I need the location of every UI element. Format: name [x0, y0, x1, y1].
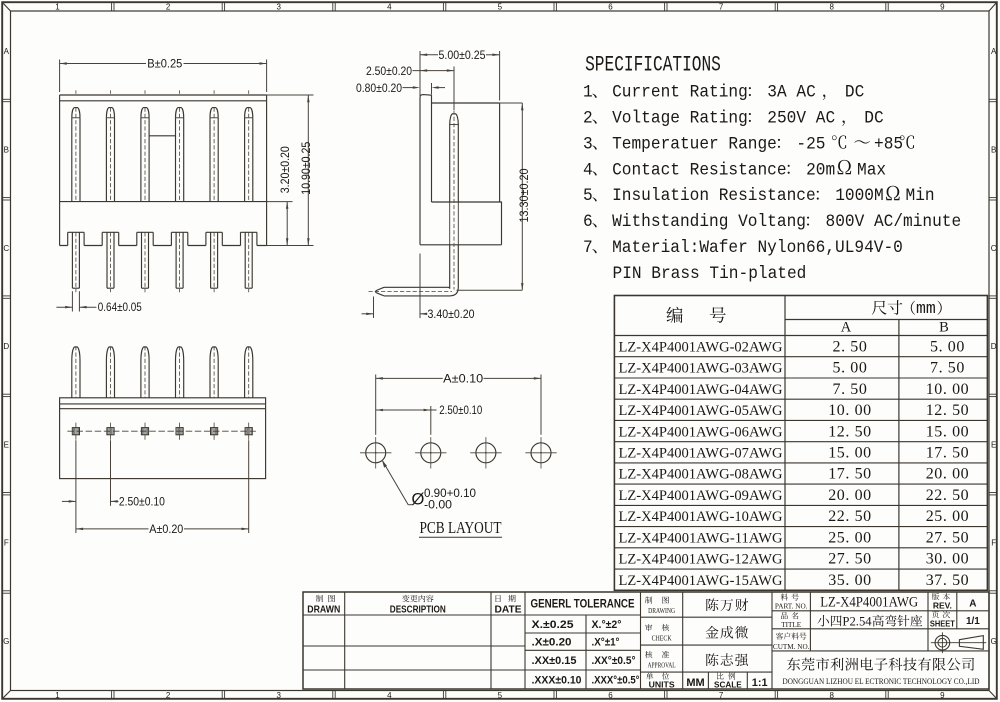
pin 5 centerline mark above body	[213, 90, 215, 93]
svg-text:15. 00: 15. 00	[828, 445, 872, 462]
svg-text:6: 6	[583, 212, 593, 232]
ruler tick left 4	[2, 393, 10, 395]
label 日期/DATE	[496, 595, 501, 602]
svg-text:.XXX°±0.5°: .XXX°±0.5°	[592, 675, 640, 687]
svg-text:5.00±0.25: 5.00±0.25	[439, 48, 486, 62]
parts table row line 5	[614, 441, 987, 443]
pin 2 (top view)	[106, 347, 114, 398]
PCB LAYOUT caption underline	[419, 536, 502, 538]
front view shoulder line	[60, 201, 267, 203]
dimension 5.00±0.25 (side view top)	[419, 51, 421, 96]
pin dashed centerline vertical (side view)	[453, 111, 455, 290]
dashed center axis through pads (top view)	[67, 430, 257, 432]
leg 4 dashed centerline	[179, 232, 181, 292]
dimension A±0.20 (top view)	[248, 440, 250, 533]
svg-text:A±0.10: A±0.10	[443, 372, 483, 386]
svg-text:10. 00: 10. 00	[926, 381, 970, 398]
svg-text:SHEET: SHEET	[930, 619, 956, 629]
dimension 2.50±0.10 (PCB layout)	[430, 406, 432, 435]
svg-text:LZ-X4P4001AWG-10AWG: LZ-X4P4001AWG-10AWG	[619, 509, 783, 525]
pin 6 dashed centerline (top view)	[248, 346, 250, 398]
svg-text:20m: 20m	[806, 161, 835, 181]
svg-text:DONGGUAN LIZHOU EL ECTRONIC TE: DONGGUAN LIZHOU EL ECTRONIC TECHNOLOGY C…	[783, 677, 980, 686]
svg-text:22. 50: 22. 50	[926, 487, 970, 504]
svg-text:C: C	[3, 244, 9, 253]
front view body side walls	[59, 95, 61, 246]
leg 3 bottom (front view)	[141, 232, 143, 288]
ruler tick right 5	[989, 492, 997, 494]
svg-text:9: 9	[940, 691, 945, 700]
front view notch side walls	[67, 232, 69, 245]
parts table row line 9	[614, 526, 987, 528]
solder pad 2 (top view)	[107, 428, 114, 435]
corner diagonal top-left	[2, 2, 10, 11]
svg-text:E: E	[991, 440, 996, 449]
svg-text:5. 00: 5. 00	[930, 338, 965, 355]
pin dashed centerline horizontal (side view)	[369, 291, 453, 293]
side view right wall lower	[501, 202, 503, 245]
svg-text:.XX±0.15: .XX±0.15	[532, 655, 577, 667]
svg-text:X.±0.25: X.±0.25	[532, 619, 574, 631]
hole 2 crosshair (PCB layout)	[415, 452, 446, 454]
svg-text:7. 50: 7. 50	[833, 381, 868, 398]
svg-text:3A AC: 3A AC	[767, 83, 815, 103]
ruler tick bottom 7	[774, 691, 776, 699]
svg-text:LZ-X4P4001AWG-03AWG: LZ-X4P4001AWG-03AWG	[619, 361, 783, 377]
svg-text:0.64±0.05: 0.64±0.05	[98, 300, 142, 314]
svg-text:7. 50: 7. 50	[930, 360, 965, 377]
svg-text:PIN Brass Tin-plated: PIN Brass Tin-plated	[613, 264, 807, 284]
svg-text:Temperatuer Range: Temperatuer Range	[612, 135, 777, 155]
pin 5 top (front view)	[210, 108, 218, 118]
row line under PART NO row	[772, 610, 989, 612]
svg-text:LZ-X4P4001AWG-02AWG: LZ-X4P4001AWG-02AWG	[619, 339, 783, 355]
label 品名/TITLE	[781, 612, 788, 619]
svg-text:X.°±2°: X.°±2°	[592, 619, 622, 631]
pin 2 centerline mark above body	[110, 90, 112, 93]
dimension 0.64±0.05 (front view bottom)	[71, 291, 73, 311]
svg-text:Current Rating: Current Rating	[612, 83, 748, 103]
svg-text:.X±0.20: .X±0.20	[532, 637, 572, 649]
hole 4 circle (PCB layout)	[531, 443, 551, 463]
svg-text:27. 50: 27. 50	[828, 551, 872, 568]
ruler tick top 4	[442, 2, 444, 11]
ruler tick bottom 4	[442, 691, 444, 699]
row line under CHECK row	[641, 644, 773, 646]
hole 1 crosshair (PCB layout)	[360, 452, 391, 454]
parts table row line 11	[614, 568, 987, 570]
svg-text:2: 2	[166, 691, 171, 700]
hole 3 crosshair (PCB layout)	[470, 452, 501, 454]
column line after PART NO labels	[809, 592, 811, 651]
top view body inner lines	[60, 403, 266, 405]
pin 6 centerline mark above body	[248, 90, 250, 93]
svg-text:4: 4	[583, 161, 593, 181]
svg-text:-0.00: -0.00	[424, 498, 452, 512]
svg-text:A: A	[991, 47, 997, 56]
svg-text:2.50±0.20: 2.50±0.20	[366, 64, 412, 78]
svg-text:5: 5	[498, 3, 503, 12]
svg-text:1: 1	[55, 3, 60, 12]
column line before REV value	[956, 592, 958, 629]
table header 编号 (part number)	[667, 307, 683, 323]
dimension A±0.10 (PCB layout)	[375, 375, 377, 435]
svg-text:UNITS: UNITS	[649, 681, 676, 690]
ruler tick top 2	[221, 2, 223, 11]
svg-text:Contact Resistance: Contact Resistance	[612, 161, 786, 181]
svg-text:7: 7	[583, 238, 593, 258]
svg-text:0.80±0.20: 0.80±0.20	[356, 81, 402, 95]
svg-text:DRAWING: DRAWING	[648, 607, 675, 615]
svg-text:20. 00: 20. 00	[926, 466, 970, 483]
leg 6 bottom (front view)	[244, 232, 246, 288]
pin 5 dashed centerline	[213, 108, 215, 202]
svg-text:7: 7	[719, 691, 724, 700]
svg-text:5: 5	[498, 691, 503, 700]
front view body top bar	[60, 94, 267, 96]
parts table column line part-number/size	[784, 296, 786, 591]
parts table row line 2	[614, 377, 987, 379]
hole 4 crosshair (PCB layout)	[525, 452, 556, 454]
svg-text:800V AC/minute: 800V AC/minute	[826, 212, 962, 232]
svg-text:1000M: 1000M	[835, 187, 883, 207]
pin 3 top (front view)	[141, 108, 149, 118]
pin 4 centerline mark above body	[179, 90, 181, 93]
svg-text:.X°±1°: .X°±1°	[592, 637, 620, 649]
ruler tick left 6	[2, 590, 10, 592]
row line under CUTM NO row	[772, 650, 989, 652]
svg-text:27. 50: 27. 50	[926, 529, 970, 546]
corner diagonal bottom-left	[2, 691, 10, 699]
pin 4 (top view)	[176, 347, 184, 398]
svg-text:TITLE: TITLE	[781, 621, 802, 629]
svg-text:Withstanding Voltang: Withstanding Voltang	[612, 212, 806, 232]
leg 5 bottom (front view)	[210, 232, 212, 288]
pin 5 dashed centerline (top view)	[213, 346, 215, 398]
svg-text:3: 3	[276, 3, 281, 12]
ruler tick bottom 1	[111, 691, 113, 699]
svg-text:Min: Min	[906, 187, 935, 207]
svg-text:15. 00: 15. 00	[926, 423, 970, 440]
ruler tick bottom 8	[885, 691, 887, 699]
solder pad 5 (top view)	[211, 428, 218, 435]
title block column line after DESCRIPTION	[490, 592, 492, 689]
svg-text:8: 8	[829, 691, 834, 700]
label 变更内容/DESCRIPTION	[402, 595, 409, 602]
svg-text:LZ-X4P4001AWG: LZ-X4P4001AWG	[820, 595, 918, 611]
solder pad 6 (top view)	[245, 428, 252, 435]
svg-text:Max: Max	[857, 161, 886, 181]
dimension 3.40±0.20 (side view bottom)	[373, 297, 375, 319]
svg-text:+85: +85	[874, 135, 903, 155]
leg 2 dashed centerline	[110, 232, 112, 292]
pin 3 dashed centerline	[144, 108, 146, 202]
svg-text:3.40±0.20: 3.40±0.20	[428, 307, 475, 321]
polarity key line between pin 3 and 4 (front view)	[149, 135, 175, 137]
svg-text:5: 5	[583, 187, 593, 207]
svg-text:DRAWN: DRAWN	[307, 605, 340, 616]
hole 2 circle (PCB layout)	[421, 443, 441, 463]
svg-text:B: B	[4, 145, 9, 154]
dimension 2.50±0.10 (top view)	[75, 440, 77, 533]
svg-text:2.50±0.10: 2.50±0.10	[439, 403, 482, 417]
third angle projection symbol circle	[935, 635, 950, 650]
svg-text:6: 6	[608, 3, 613, 12]
leg 2 bottom (front view)	[106, 232, 108, 288]
svg-text:A: A	[4, 47, 10, 56]
side view right wall upper	[499, 103, 501, 202]
side view body bottom	[420, 244, 502, 246]
solder pad 1 (top view)	[72, 428, 79, 435]
leg 5 dashed centerline	[213, 232, 215, 292]
svg-text:DC: DC	[845, 83, 864, 103]
ruler tick top 8	[885, 2, 887, 11]
svg-text:LZ-X4P4001AWG-15AWG: LZ-X4P4001AWG-15AWG	[619, 573, 783, 589]
ruler tick right 3	[989, 295, 997, 297]
svg-text:A: A	[841, 320, 852, 336]
dimension 13.30±0.20 (side view right)	[500, 102, 523, 104]
svg-text:LZ-X4P4001AWG-05AWG: LZ-X4P4001AWG-05AWG	[619, 403, 783, 419]
tolerance row lines	[525, 632, 641, 634]
svg-text:30. 00: 30. 00	[926, 551, 970, 568]
dimension 10.90±0.25 (front view right)	[267, 94, 314, 96]
top view body outline	[60, 398, 266, 479]
ruler tick top 1	[111, 2, 113, 11]
pin 6 dashed centerline	[248, 108, 250, 202]
pin 2 dashed centerline (top view)	[110, 346, 112, 398]
svg-text:F: F	[991, 539, 996, 548]
svg-text:DESCRIPTION: DESCRIPTION	[390, 605, 446, 616]
projection symbol cone	[959, 636, 983, 650]
svg-text:B: B	[991, 145, 996, 154]
ruler tick left 5	[2, 492, 10, 494]
bent pin leg (side view L-shape)	[384, 245, 450, 289]
svg-text:1/1: 1/1	[966, 616, 980, 627]
svg-text:LZ-X4P4001AWG-07AWG: LZ-X4P4001AWG-07AWG	[619, 446, 783, 462]
svg-text:12. 50: 12. 50	[926, 402, 970, 419]
ruler tick bottom 3	[332, 691, 334, 699]
title block column line before drawing labels	[640, 592, 642, 689]
ruler tick right 6	[989, 590, 997, 592]
svg-text:SPECIFICATIONS: SPECIFICATIONS	[585, 52, 721, 77]
parts table row line 10	[614, 547, 987, 549]
svg-text:G: G	[3, 637, 9, 646]
pin 1 dashed centerline (top view)	[75, 346, 77, 398]
title block column line after DRAWN	[344, 592, 346, 689]
row line under DRAWING row	[641, 616, 773, 618]
row line under TITLE row	[772, 628, 989, 630]
title block column line after DATE	[524, 592, 526, 689]
ruler tick top 5	[553, 2, 555, 11]
svg-text:3.20±0.20: 3.20±0.20	[278, 146, 292, 193]
ruler tick left 1	[2, 98, 10, 100]
svg-text:Voltage Rating: Voltage Rating	[612, 109, 748, 129]
svg-text:B±0.25: B±0.25	[147, 57, 182, 71]
dimension 0.80±0.20 (side view)	[431, 83, 433, 94]
svg-text:37. 50: 37. 50	[926, 572, 970, 589]
dimension 3.20±0.20 (front view right)	[267, 201, 293, 203]
svg-text:LZ-X4P4001AWG-12AWG: LZ-X4P4001AWG-12AWG	[619, 552, 783, 568]
svg-text:SCALE: SCALE	[714, 681, 742, 690]
pin 4 top (front view)	[176, 108, 184, 118]
svg-text:A: A	[969, 599, 976, 610]
svg-text:LZ-X4P4001AWG-06AWG: LZ-X4P4001AWG-06AWG	[619, 424, 783, 440]
svg-text:6: 6	[608, 691, 613, 700]
ruler tick bottom 6	[664, 691, 666, 699]
label 核准/APPROVAL	[645, 651, 652, 658]
rows in revision area	[303, 645, 525, 647]
pin 6 (top view)	[245, 347, 253, 398]
svg-text:4: 4	[387, 691, 392, 700]
svg-text:8: 8	[829, 3, 834, 12]
front view bottom edge with notches	[60, 245, 267, 247]
title value 小四P2.54高弯针座	[817, 615, 829, 626]
parts table row line 4	[614, 419, 987, 421]
svg-text:GENERL TOLERANCE: GENERL TOLERANCE	[531, 599, 635, 611]
hole 3 circle (PCB layout)	[476, 443, 496, 463]
svg-text:10. 00: 10. 00	[828, 402, 872, 419]
pin 6 top (front view)	[245, 108, 253, 118]
label 制图/DRAWN	[316, 595, 323, 602]
label 页次/SHEET	[932, 611, 939, 618]
title block header row line (left)	[303, 614, 641, 616]
svg-text:12. 50: 12. 50	[828, 423, 872, 440]
pin 3 (top view)	[141, 347, 149, 398]
parts table header row line	[785, 319, 987, 321]
svg-text:1: 1	[55, 691, 60, 700]
svg-text:3: 3	[276, 691, 281, 700]
svg-text:1: 1	[583, 83, 593, 103]
hole diameter leader line (PCB layout)	[383, 461, 409, 505]
dimension 2.50±0.20 (side view)	[453, 67, 455, 111]
svg-text:LZ-X4P4001AWG-11AWG: LZ-X4P4001AWG-11AWG	[619, 530, 783, 546]
table header 尺寸（mm） (size mm)	[872, 301, 887, 315]
svg-text:D: D	[991, 342, 997, 351]
svg-text:250V AC: 250V AC	[767, 109, 835, 129]
svg-text:Ø: Ø	[412, 491, 425, 509]
svg-text:25. 00: 25. 00	[828, 529, 872, 546]
ruler tick right 1	[989, 98, 997, 100]
svg-text:2: 2	[583, 109, 593, 129]
parts table column line A/B	[898, 320, 900, 591]
svg-text:LZ-X4P4001AWG-09AWG: LZ-X4P4001AWG-09AWG	[619, 488, 783, 504]
parts table row line 7	[614, 483, 987, 485]
leg 1 dashed centerline	[75, 232, 77, 292]
row line under APPROVAL row	[641, 671, 773, 673]
svg-text:LZ-X4P4001AWG-04AWG: LZ-X4P4001AWG-04AWG	[619, 382, 783, 398]
svg-text:LZ-X4P4001AWG-08AWG: LZ-X4P4001AWG-08AWG	[619, 467, 783, 483]
name 陈志强 (approved by)	[706, 653, 718, 666]
svg-text:CHECK: CHECK	[652, 635, 673, 643]
pin passes through base (side view)	[449, 202, 451, 245]
svg-text:REV.: REV.	[933, 601, 952, 611]
svg-text:2: 2	[166, 3, 171, 12]
pin 3 centerline mark above body	[144, 90, 146, 93]
ruler tick bottom 5	[553, 691, 555, 699]
svg-text:22. 50: 22. 50	[828, 508, 872, 525]
svg-text:DC: DC	[864, 109, 883, 129]
svg-text:17. 50: 17. 50	[926, 445, 970, 462]
svg-text:1:1: 1:1	[752, 677, 768, 689]
svg-text:DATE: DATE	[495, 605, 522, 616]
svg-text:.XXX±0.10: .XXX±0.10	[532, 675, 582, 687]
svg-text:17. 50: 17. 50	[828, 466, 872, 483]
corner diagonal top-right	[989, 2, 997, 11]
svg-text:25. 00: 25. 00	[926, 508, 970, 525]
label 比例/SCALE	[717, 673, 724, 680]
ruler tick bottom 2	[221, 691, 223, 699]
parts table outer border	[614, 296, 987, 591]
svg-text:APPROVAL: APPROVAL	[648, 662, 676, 670]
pin 2 top (front view)	[106, 108, 114, 118]
svg-text:20. 00: 20. 00	[828, 487, 872, 504]
title block tolerance middle column line	[585, 615, 587, 689]
pin 5 (top view)	[210, 347, 218, 398]
pin in side view (vertical with tip)	[450, 114, 459, 125]
solder pad 3 (top view)	[141, 428, 148, 435]
pin 4 dashed centerline (top view)	[179, 346, 181, 398]
svg-text:35. 00: 35. 00	[828, 572, 872, 589]
pin 2 dashed centerline	[110, 108, 112, 202]
column line after signature labels	[682, 592, 684, 689]
svg-text:13.30±0.20: 13.30±0.20	[517, 168, 531, 222]
svg-text:mm: mm	[916, 299, 936, 318]
ruler tick top 3	[332, 2, 334, 11]
parts table row line 6	[614, 462, 987, 464]
svg-text:CUTM. NO.: CUTM. NO.	[773, 643, 810, 651]
ruler tick left 2	[2, 197, 10, 199]
svg-text:4: 4	[387, 3, 392, 12]
svg-text:C: C	[991, 244, 997, 253]
side view top rim line	[432, 102, 500, 104]
svg-text:7: 7	[719, 3, 724, 12]
pin 1 dashed centerline	[75, 108, 77, 202]
leg 6 dashed centerline	[248, 232, 250, 292]
svg-text:F: F	[4, 539, 9, 548]
hole 1 circle (PCB layout)	[366, 443, 386, 463]
svg-text:A±0.20: A±0.20	[149, 522, 183, 536]
svg-text:D: D	[3, 342, 9, 351]
svg-text:Insulation Resistance: Insulation Resistance	[612, 187, 816, 207]
ruler tick top 6	[664, 2, 666, 11]
svg-text:3: 3	[583, 135, 593, 155]
pin 1 centerline mark above body	[75, 90, 77, 93]
leg 4 bottom (front view)	[175, 232, 177, 288]
column line before REV label	[927, 592, 929, 651]
svg-text:-25: -25	[796, 135, 825, 155]
svg-text:Material:Wafer Nylon66,UL94V-0: Material:Wafer Nylon66,UL94V-0	[612, 238, 903, 258]
pin 4 dashed centerline	[179, 108, 181, 202]
ruler tick right 4	[989, 393, 997, 395]
label 版本/REV	[932, 593, 939, 600]
ruler tick top 7	[774, 2, 776, 11]
bent pin tip (side view)	[376, 287, 385, 296]
svg-text:G: G	[991, 637, 997, 646]
pin 3 dashed centerline (top view)	[144, 346, 146, 398]
svg-text:PCB LAYOUT: PCB LAYOUT	[420, 518, 502, 537]
leg 3 dashed centerline	[144, 232, 146, 292]
company name 东莞市利洲电子科技有限公司	[787, 658, 800, 671]
name 陈万财 (drawn by)	[706, 598, 718, 611]
svg-text:2.50±0.10: 2.50±0.10	[119, 495, 165, 509]
parts table row line 8	[614, 504, 987, 506]
svg-text:.XX°±0.5°: .XX°±0.5°	[592, 655, 636, 667]
side view cavity floor	[432, 201, 503, 203]
solder pad 4 (top view)	[176, 428, 183, 435]
leg 1 bottom (front view)	[71, 232, 73, 288]
front view notch top lines	[68, 231, 84, 233]
svg-text:5. 00: 5. 00	[833, 360, 868, 377]
